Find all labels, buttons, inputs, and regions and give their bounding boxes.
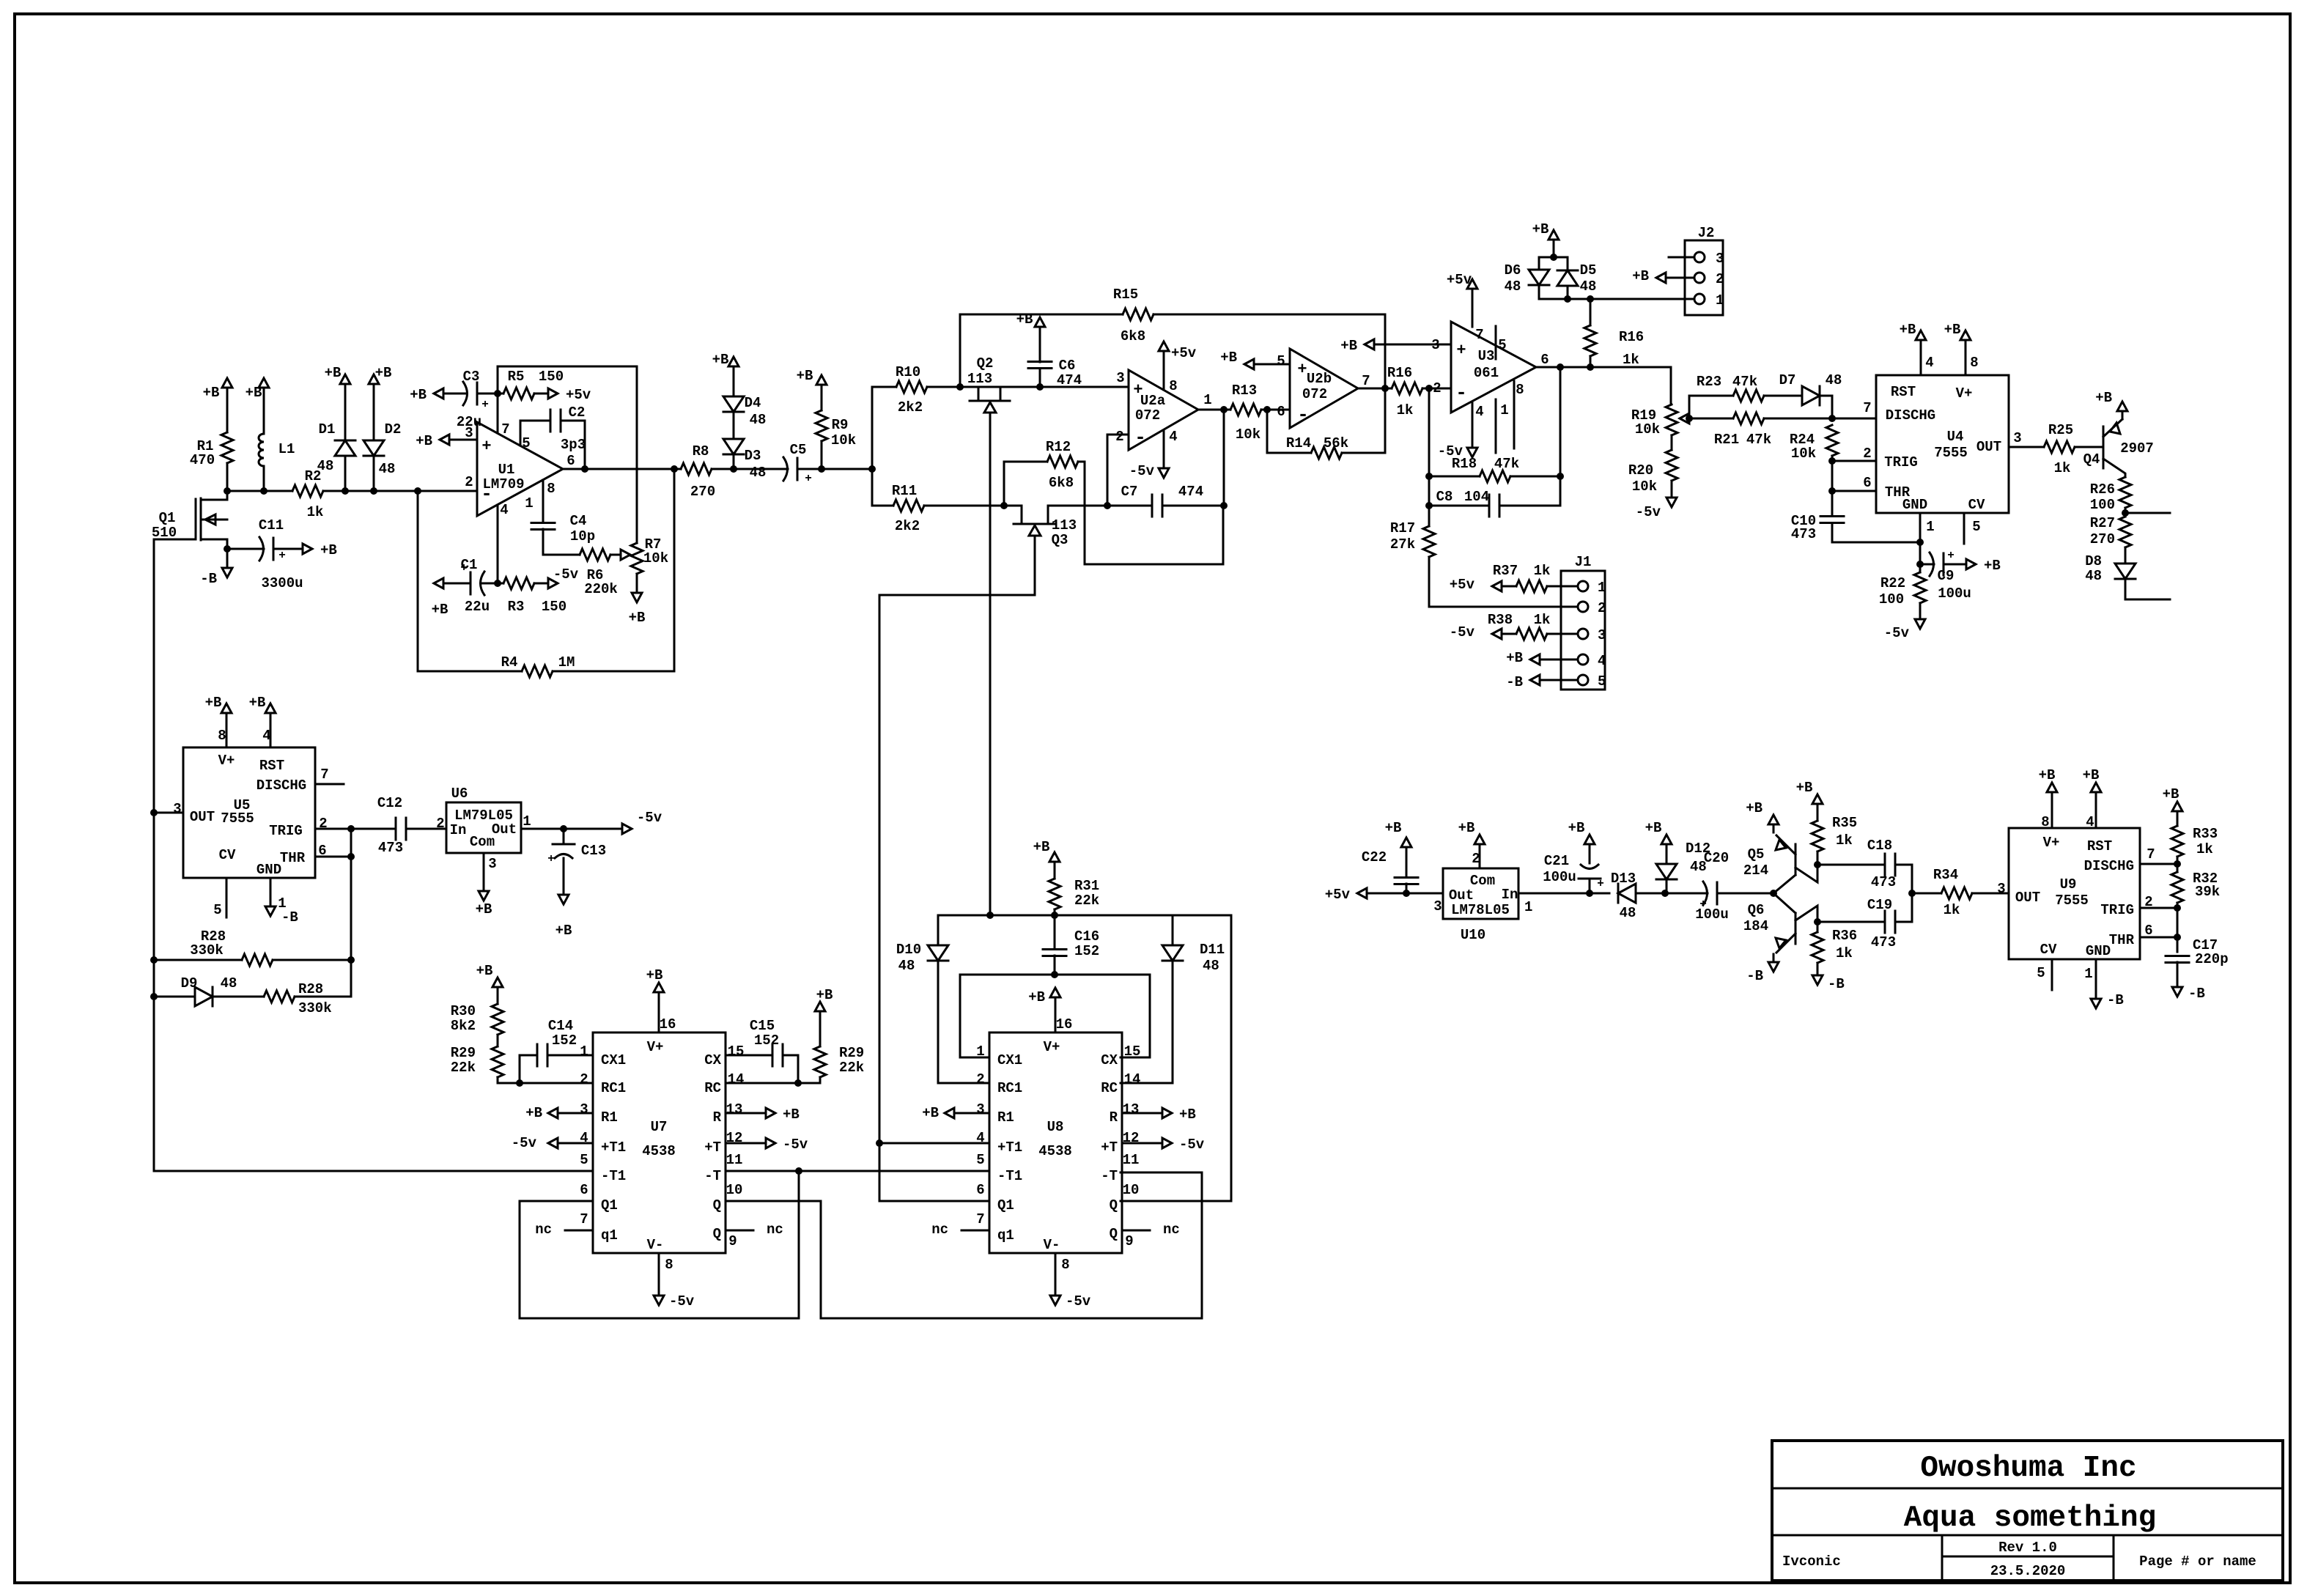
svg-text:J1: J1 <box>1575 554 1592 570</box>
svg-text:+B: +B <box>375 365 392 381</box>
svg-text:470: 470 <box>190 452 215 468</box>
power +B above Q5 <box>1746 800 1779 832</box>
svg-text:7555: 7555 <box>2055 893 2089 909</box>
svg-text:3p3: 3p3 <box>561 437 586 453</box>
power +B for U7 pin13 <box>726 1107 800 1123</box>
svg-text:5: 5 <box>580 1152 588 1168</box>
svg-text:1: 1 <box>1524 899 1532 915</box>
svg-text:7: 7 <box>976 1211 984 1227</box>
resistor R38 <box>1488 612 1556 640</box>
wire U8 CX loop <box>1121 975 1150 1057</box>
power +B for U10 pin2 <box>1458 820 1485 868</box>
transistor Q2 <box>967 355 1010 421</box>
svg-text:2k2: 2k2 <box>898 399 923 415</box>
svg-text:-: - <box>1297 404 1309 426</box>
svg-text:473: 473 <box>1871 934 1896 950</box>
resistor R14 <box>1267 410 1385 459</box>
svg-text:10k: 10k <box>1791 446 1816 462</box>
svg-text:48: 48 <box>317 458 334 474</box>
resistor R36 <box>1812 918 1857 967</box>
svg-text:5: 5 <box>976 1152 984 1168</box>
svg-text:27k: 27k <box>1390 536 1415 553</box>
power +B above R29 right <box>815 987 833 1019</box>
svg-text:48: 48 <box>898 958 915 974</box>
svg-text:48: 48 <box>379 461 396 477</box>
svg-text:R16: R16 <box>1387 365 1412 381</box>
title date <box>1990 1563 2066 1579</box>
svg-text:-5v: -5v <box>553 566 579 583</box>
svg-text:1k: 1k <box>2054 460 2071 476</box>
svg-text:C19: C19 <box>1867 897 1892 913</box>
capacitor C18 <box>1817 838 1912 893</box>
svg-text:4: 4 <box>1475 404 1483 420</box>
svg-text:+B: +B <box>2083 767 2100 783</box>
svg-text:+B: +B <box>476 901 492 917</box>
wire U5 OUT to left rail <box>150 809 183 816</box>
resistor R6 <box>543 549 618 597</box>
svg-text:-: - <box>481 483 492 505</box>
svg-text:+B: +B <box>1179 1107 1196 1123</box>
power +5v left of U10 <box>1325 887 1375 903</box>
IC U4 7555 <box>1863 355 2021 535</box>
svg-text:16: 16 <box>660 1016 676 1032</box>
svg-text:330k: 330k <box>298 1000 332 1016</box>
resistor R22 <box>1879 564 1926 611</box>
svg-text:Q6: Q6 <box>1748 902 1765 918</box>
wire DISCHG to U4 <box>1832 418 1876 420</box>
svg-text:+5v: +5v <box>566 387 591 403</box>
capacitor C6 <box>1028 335 1082 388</box>
svg-text:2: 2 <box>1115 429 1123 445</box>
svg-text:10: 10 <box>726 1182 743 1198</box>
svg-text:C20: C20 <box>1704 850 1729 866</box>
power +5v for J1 pin1 <box>1450 577 1510 593</box>
power +B above R31 <box>1033 839 1060 870</box>
power +B above C22 <box>1385 820 1411 855</box>
power +B below R7 <box>629 574 646 626</box>
svg-text:6: 6 <box>580 1182 588 1198</box>
svg-text:R26: R26 <box>2090 481 2115 498</box>
resistor R13 <box>1230 383 1290 443</box>
potentiometer R19 <box>1631 404 1697 437</box>
power +B below C13 <box>555 887 572 939</box>
title author <box>1782 1553 1841 1570</box>
svg-text:47k: 47k <box>1494 456 1519 472</box>
svg-text:8: 8 <box>547 481 555 497</box>
svg-text:R37: R37 <box>1493 563 1518 579</box>
wire to filter branch node <box>822 387 876 506</box>
power -5v for U8 pin8 <box>1050 1253 1091 1309</box>
svg-text:CX: CX <box>1101 1052 1118 1068</box>
svg-text:R12: R12 <box>1046 439 1071 455</box>
op-amp U2a <box>1115 370 1211 450</box>
svg-text:RC: RC <box>1101 1080 1118 1096</box>
svg-text:C11: C11 <box>259 517 284 533</box>
resistor R34 <box>1912 867 2009 918</box>
capacitor C13 <box>547 829 606 887</box>
resistor R17 <box>1390 520 1561 607</box>
svg-text:22k: 22k <box>451 1060 476 1076</box>
svg-text:U8: U8 <box>1047 1119 1064 1135</box>
wire C16 bottom rail <box>960 971 1150 978</box>
svg-text:D6: D6 <box>1505 262 1521 278</box>
svg-text:CX1: CX1 <box>997 1052 1022 1068</box>
svg-text:Com: Com <box>470 834 495 850</box>
wire U7 Q pin10 to U8 -T pin11 <box>726 1172 1202 1318</box>
svg-text:D5: D5 <box>1580 262 1597 278</box>
power +B for U4 pin8 <box>1944 322 1971 375</box>
power +B above C21 <box>1568 820 1595 852</box>
resistor R2 <box>292 468 323 520</box>
svg-text:C5: C5 <box>790 442 807 458</box>
svg-text:+B: +B <box>1033 839 1050 855</box>
power -5v for U8 pin12 <box>1122 1137 1205 1153</box>
svg-text:7: 7 <box>1475 327 1483 343</box>
power -5v below R20 <box>1636 489 1677 520</box>
wire U2a pin2 <box>1104 435 1129 509</box>
svg-text:q1: q1 <box>997 1227 1014 1244</box>
svg-text:q1: q1 <box>601 1227 618 1244</box>
svg-text:10: 10 <box>1123 1182 1140 1198</box>
svg-text:OUT: OUT <box>2015 890 2040 906</box>
svg-text:7: 7 <box>501 421 509 437</box>
power +B for U5 pin4 <box>249 695 276 747</box>
svg-text:+B: +B <box>476 963 493 979</box>
svg-text:7: 7 <box>1362 373 1370 389</box>
wire U7 RC1 <box>520 1082 593 1085</box>
svg-text:47k: 47k <box>1732 374 1757 390</box>
connector J2 <box>1669 225 1724 315</box>
svg-text:Rev 1.0: Rev 1.0 <box>1998 1540 2057 1556</box>
svg-text:V+: V+ <box>647 1039 664 1055</box>
svg-text:C16: C16 <box>1074 928 1099 945</box>
svg-text:-5v: -5v <box>1450 624 1475 640</box>
power -B below Q1 <box>200 549 232 587</box>
svg-text:C3: C3 <box>463 369 480 385</box>
svg-text:100u: 100u <box>1938 585 1971 602</box>
svg-text:7555: 7555 <box>1934 445 1968 461</box>
svg-text:5: 5 <box>1972 519 1980 535</box>
power -B below R36 <box>1812 967 1845 992</box>
svg-text:22k: 22k <box>839 1060 864 1076</box>
svg-text:220p: 220p <box>2195 951 2229 967</box>
svg-text:113: 113 <box>967 371 992 387</box>
svg-text:+B: +B <box>1385 820 1402 836</box>
svg-text:U7: U7 <box>651 1119 668 1135</box>
svg-text:510: 510 <box>152 525 177 541</box>
svg-text:Q: Q <box>713 1197 721 1213</box>
svg-text:C9: C9 <box>1938 568 1955 584</box>
resistor R24 <box>1790 425 1838 465</box>
svg-text:1: 1 <box>525 495 533 511</box>
svg-text:Q2: Q2 <box>977 355 994 372</box>
svg-text:6: 6 <box>1863 475 1871 491</box>
svg-text:D2: D2 <box>385 421 402 437</box>
resistor R9 <box>816 393 856 469</box>
svg-text:R29: R29 <box>839 1045 864 1061</box>
svg-text:TRIG: TRIG <box>1884 454 1918 470</box>
svg-text:R16: R16 <box>1619 329 1644 345</box>
op-amp U1 <box>465 421 575 518</box>
svg-text:THR: THR <box>2109 932 2135 948</box>
wire C16 rail <box>938 912 1231 919</box>
power +B for U8 pin3 <box>922 1105 989 1121</box>
svg-text:C15: C15 <box>750 1018 775 1034</box>
wire U2b output <box>1358 388 1392 390</box>
svg-text:R5: R5 <box>508 369 525 385</box>
svg-text:+B: +B <box>816 987 833 1003</box>
svg-text:474: 474 <box>1057 372 1082 388</box>
wire main input net <box>224 487 477 495</box>
svg-text:4: 4 <box>2086 814 2094 830</box>
wire U6 out net <box>521 825 614 832</box>
svg-text:C21: C21 <box>1544 853 1569 869</box>
svg-text:-T1: -T1 <box>601 1168 626 1184</box>
power +B for J1 pin4 <box>1506 650 1548 666</box>
svg-text:-B: -B <box>1746 968 1763 984</box>
svg-text:+B: +B <box>646 967 663 983</box>
svg-text:3300u: 3300u <box>261 575 303 591</box>
wire U10 out <box>1375 893 1443 895</box>
svg-text:23.5.2020: 23.5.2020 <box>1990 1563 2066 1579</box>
potentiometer R7 <box>613 536 668 574</box>
svg-text:22u: 22u <box>465 599 490 615</box>
wire U7 Q1 loop <box>520 1171 799 1318</box>
power +B for C3 <box>410 387 451 403</box>
svg-text:100: 100 <box>1879 591 1904 607</box>
svg-text:+: + <box>1297 361 1307 379</box>
svg-text:LM78L05: LM78L05 <box>1451 902 1510 918</box>
svg-text:270: 270 <box>2090 531 2115 547</box>
svg-text:R30: R30 <box>451 1003 476 1019</box>
svg-text:220k: 220k <box>584 581 618 597</box>
svg-text:150: 150 <box>542 599 566 615</box>
svg-text:061: 061 <box>1474 365 1499 381</box>
svg-text:U10: U10 <box>1461 927 1485 943</box>
wire U8 Q1 to +T1 junction <box>879 1200 989 1202</box>
svg-text:214: 214 <box>1743 862 1768 879</box>
resistor R20 <box>1628 435 1677 495</box>
svg-text:CX1: CX1 <box>601 1052 626 1068</box>
svg-text:Q: Q <box>713 1226 721 1242</box>
svg-text:48: 48 <box>1620 905 1636 921</box>
svg-text:-5v: -5v <box>1636 504 1661 520</box>
power +B right of C9 <box>1958 558 2001 574</box>
power +B for U6 pin3 <box>476 853 492 917</box>
resistor R15 feedback <box>960 287 1389 453</box>
svg-text:+B: +B <box>525 1105 542 1121</box>
svg-text:1: 1 <box>523 813 531 830</box>
svg-text:+5v: +5v <box>1447 272 1472 288</box>
resistor R23 <box>1689 374 1764 418</box>
svg-text:+: + <box>1699 898 1707 911</box>
capacitor C8 <box>1429 489 1560 517</box>
svg-text:5: 5 <box>213 902 221 918</box>
power +B for D1 <box>325 365 350 392</box>
power +B for U4 pin4 <box>1900 322 1926 375</box>
svg-text:U9: U9 <box>2060 876 2077 893</box>
svg-text:4: 4 <box>1925 355 1933 371</box>
svg-text:2: 2 <box>976 1071 984 1087</box>
svg-text:11: 11 <box>726 1152 743 1168</box>
svg-text:2: 2 <box>1716 271 1724 287</box>
svg-text:RST: RST <box>259 758 284 774</box>
svg-text:+B: +B <box>1016 311 1033 328</box>
svg-text:C7: C7 <box>1121 484 1138 500</box>
svg-text:R28: R28 <box>298 981 323 997</box>
svg-text:R18: R18 <box>1452 456 1477 472</box>
transistor Q4 <box>2083 419 2154 477</box>
power -B for U5 pin1 <box>265 878 298 926</box>
svg-text:3: 3 <box>488 856 496 872</box>
svg-text:Q: Q <box>1110 1226 1118 1242</box>
svg-text:+5v: +5v <box>1171 345 1197 361</box>
svg-text:474: 474 <box>1178 484 1203 500</box>
svg-text:6: 6 <box>976 1182 984 1198</box>
diode D12 <box>1656 841 1710 893</box>
capacitor C2 with loop <box>520 404 586 469</box>
svg-text:DISCHG: DISCHG <box>2084 858 2134 874</box>
svg-text:22u: 22u <box>457 414 481 430</box>
svg-text:2: 2 <box>436 816 444 832</box>
svg-text:15: 15 <box>728 1043 745 1060</box>
svg-text:GND: GND <box>256 862 281 878</box>
svg-text:D11: D11 <box>1200 942 1225 958</box>
svg-text:1k: 1k <box>1836 832 1853 849</box>
svg-text:14: 14 <box>1124 1071 1141 1087</box>
svg-text:D8: D8 <box>2085 553 2102 569</box>
svg-text:4538: 4538 <box>1038 1143 1072 1159</box>
svg-text:1: 1 <box>1203 392 1211 408</box>
svg-text:+B: +B <box>2163 786 2179 802</box>
svg-text:-B: -B <box>1506 674 1523 690</box>
svg-text:TRIG: TRIG <box>269 823 303 839</box>
svg-text:V-: V- <box>647 1237 664 1253</box>
svg-text:+: + <box>1133 381 1143 399</box>
diode D10 <box>896 915 989 1083</box>
svg-text:6: 6 <box>566 453 575 469</box>
diode D11 <box>1121 915 1225 1083</box>
svg-text:C6: C6 <box>1059 358 1076 374</box>
svg-text:48: 48 <box>1580 278 1597 295</box>
capacitor C20 <box>1665 850 1777 923</box>
svg-text:8: 8 <box>1169 378 1177 394</box>
wire U8 +T1 from junction <box>879 1142 989 1145</box>
power +5v for U2a pin8 <box>1159 341 1197 390</box>
svg-text:4538: 4538 <box>642 1143 676 1159</box>
power +B for C6 <box>1016 311 1045 335</box>
svg-text:8: 8 <box>1516 382 1524 398</box>
wire C7 net <box>1048 505 1152 507</box>
wire U8 pin10 Q to rail <box>1121 915 1231 1201</box>
svg-text:-B: -B <box>2107 992 2124 1008</box>
svg-text:D10: D10 <box>896 942 921 958</box>
capacitor C10 <box>1791 513 1924 546</box>
svg-text:DISCHG: DISCHG <box>256 777 306 794</box>
svg-text:R31: R31 <box>1074 878 1099 894</box>
capacitor C3 <box>451 369 498 430</box>
svg-text:7: 7 <box>320 766 328 783</box>
svg-text:8: 8 <box>218 728 226 744</box>
svg-text:3: 3 <box>173 801 181 817</box>
svg-text:8: 8 <box>1970 355 1978 371</box>
wire U3 output net <box>1536 363 1671 404</box>
svg-text:5: 5 <box>1498 337 1506 353</box>
svg-text:-T: -T <box>704 1168 721 1184</box>
svg-text:+B: +B <box>1220 350 1237 366</box>
svg-text:-: - <box>1134 426 1146 448</box>
svg-text:R36: R36 <box>1832 928 1857 944</box>
svg-text:TRIG: TRIG <box>2100 902 2134 918</box>
svg-text:+5v: +5v <box>1325 887 1351 903</box>
power +B for C1 <box>432 578 451 618</box>
svg-text:R13: R13 <box>1232 383 1257 399</box>
power +B for U8 pin16 <box>1028 988 1060 1032</box>
resistor R21 <box>1689 413 1836 448</box>
wire U9 DISCHG <box>2140 860 2181 868</box>
resistor R28 first <box>150 928 355 966</box>
resistor R18 <box>1425 456 1560 509</box>
svg-text:D1: D1 <box>319 421 336 437</box>
svg-text:5: 5 <box>1277 353 1285 369</box>
wire U4 pin5 CV stub <box>1963 513 1965 544</box>
svg-text:+B: +B <box>1028 989 1045 1005</box>
svg-text:In: In <box>450 822 467 838</box>
transistor Q1 <box>152 491 231 553</box>
IC U5 7555 <box>173 728 328 918</box>
diode D4 <box>723 374 766 439</box>
svg-text:+B: +B <box>246 385 262 401</box>
svg-text:C2: C2 <box>569 404 586 421</box>
svg-text:Out: Out <box>492 821 517 838</box>
svg-text:+: + <box>481 398 489 411</box>
resistor R1 <box>190 396 233 491</box>
svg-text:DISCHG: DISCHG <box>1886 407 1935 424</box>
svg-text:15: 15 <box>1124 1043 1141 1060</box>
svg-text:RC: RC <box>704 1080 721 1096</box>
svg-text:+T1: +T1 <box>997 1139 1022 1156</box>
power +B for D2 <box>369 365 391 392</box>
wire U4 pin1 GND <box>1916 513 1924 568</box>
svg-text:R33: R33 <box>2193 826 2218 842</box>
power +B for R9 <box>797 368 827 393</box>
capacitor C21 <box>1543 852 1604 893</box>
svg-text:8: 8 <box>1061 1257 1069 1273</box>
resistor R28 second <box>213 960 351 1016</box>
svg-text:R11: R11 <box>892 483 917 499</box>
svg-text:R21: R21 <box>1714 432 1739 448</box>
capacitor C17 <box>2166 937 2229 979</box>
svg-text:48: 48 <box>2085 568 2102 584</box>
svg-text:+B: +B <box>783 1107 800 1123</box>
svg-text:1: 1 <box>1926 519 1934 535</box>
power -5v for U2a pin4 <box>1129 430 1169 479</box>
svg-text:+B: +B <box>2095 390 2112 406</box>
svg-text:2: 2 <box>1598 600 1606 616</box>
svg-text:1k: 1k <box>1623 352 1639 368</box>
svg-text:C13: C13 <box>581 843 606 859</box>
diode D6 <box>1505 257 1549 299</box>
svg-text:-5v: -5v <box>669 1293 695 1309</box>
wire Q1 gate to -T1 long vertical <box>153 539 155 1171</box>
svg-text:+B: +B <box>249 695 266 711</box>
svg-text:473: 473 <box>378 840 403 856</box>
svg-text:+: + <box>278 549 286 562</box>
capacitor C9 <box>1920 549 1971 602</box>
svg-text:R38: R38 <box>1488 612 1513 628</box>
svg-text:-5v: -5v <box>512 1135 537 1151</box>
svg-text:270: 270 <box>690 484 715 500</box>
